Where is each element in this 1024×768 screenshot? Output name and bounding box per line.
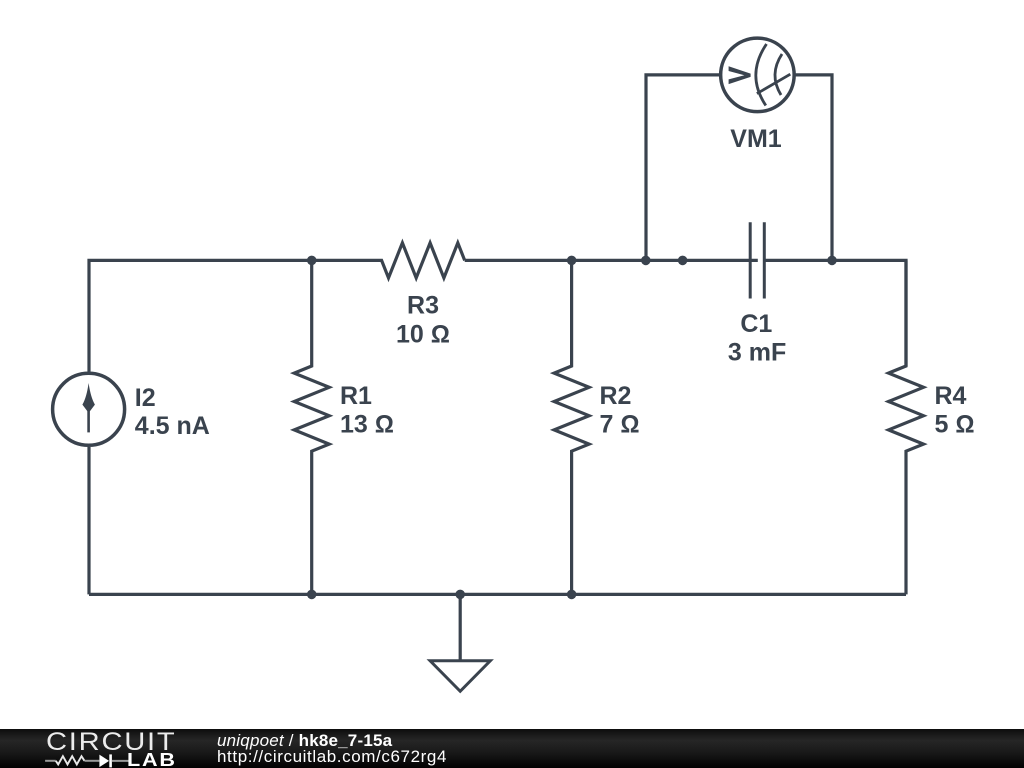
svg-text:I2: I2 xyxy=(135,384,156,412)
voltmeter VM1 circle xyxy=(721,38,795,112)
label C1 value xyxy=(728,310,786,367)
svg-text:13 Ω: 13 Ω xyxy=(340,411,394,439)
label R3 value xyxy=(396,292,450,349)
wire: voltmeter left leg xyxy=(646,75,720,261)
junction dot (R1 bottom) xyxy=(307,590,317,600)
label R2 value xyxy=(600,382,640,439)
svg-text:4.5 nA: 4.5 nA xyxy=(135,412,210,440)
wire: node B to capacitor C1 left lead xyxy=(465,259,758,262)
wire: bottom rail xyxy=(89,593,906,596)
junction dot (voltmeter right tap) xyxy=(827,256,837,266)
label VM1 xyxy=(730,125,782,153)
svg-text:7 Ω: 7 Ω xyxy=(600,411,640,439)
voltmeter VM1 glyph: big arc xyxy=(756,44,767,106)
voltmeter VM1 glyph: small arc xyxy=(775,54,782,95)
resistor R1 (13 ohm, vertical) xyxy=(294,260,329,594)
junction dot (extra node on top wire) xyxy=(678,256,688,266)
svg-text:R2: R2 xyxy=(600,382,632,410)
footer logo LAB xyxy=(127,749,177,768)
footer logo resistor-diode art xyxy=(0,729,140,768)
svg-text:5 Ω: 5 Ω xyxy=(935,411,975,439)
footer url line xyxy=(217,747,447,767)
resistor R3 (10 ohm, horizontal) xyxy=(312,243,465,278)
node B junction dot (R2 top) xyxy=(567,256,577,266)
svg-text:C1: C1 xyxy=(740,310,772,338)
svg-text:10 Ω: 10 Ω xyxy=(396,321,450,349)
junction dot (ground tap) xyxy=(455,590,465,600)
current source I2 circle xyxy=(53,373,125,445)
capacitor C1 left plate xyxy=(749,222,752,298)
voltmeter VM1 glyph: needle xyxy=(757,74,790,93)
node A junction dot (R1 top) xyxy=(307,256,317,266)
current source I2 arrow xyxy=(82,383,95,432)
resistor R2 (7 ohm, vertical) xyxy=(554,260,589,594)
wire: left rail bottom from I2 down to bottom rail xyxy=(87,447,90,594)
voltmeter VM1 glyph: > xyxy=(729,66,751,84)
footer bar xyxy=(0,729,1024,768)
resistor R4 (5 ohm, vertical) xyxy=(889,260,924,594)
svg-text:VM1: VM1 xyxy=(730,125,782,153)
footer credit line xyxy=(217,731,392,751)
wire: voltmeter right leg xyxy=(795,75,832,261)
wire: top-left from current source up and right to node A xyxy=(89,260,312,371)
wire: from C1 right plate to right rail and down to R4 xyxy=(764,260,906,366)
label R4 value xyxy=(935,382,975,439)
label R1 value xyxy=(340,382,394,439)
capacitor C1 right plate xyxy=(763,222,766,298)
junction dot (R2 bottom) xyxy=(567,590,577,600)
svg-text:R4: R4 xyxy=(935,382,967,410)
junction dot (voltmeter left tap) xyxy=(641,256,651,266)
svg-text:R3: R3 xyxy=(407,292,439,320)
svg-text:R1: R1 xyxy=(340,382,372,410)
ground xyxy=(430,594,490,691)
label I2 value xyxy=(135,384,210,440)
svg-text:3 mF: 3 mF xyxy=(728,338,786,366)
footer logo CIRCUIT xyxy=(46,733,176,751)
